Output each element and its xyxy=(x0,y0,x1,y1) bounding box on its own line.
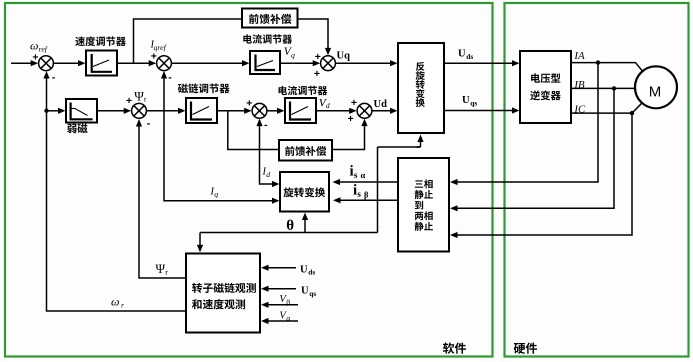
label Iqref xyxy=(150,40,168,52)
summing junction S1 omega xyxy=(32,52,55,84)
svg-text:qs: qs xyxy=(309,289,316,298)
wire Ud to inverse rotation xyxy=(372,108,398,114)
block current regulator 2 xyxy=(279,86,328,123)
wire phase IA xyxy=(450,60,643,185)
wire Vd to S6 xyxy=(316,108,357,114)
block voltage source inverter xyxy=(520,51,571,123)
wire Uds to inverter xyxy=(444,60,520,66)
svg-text:Ud: Ud xyxy=(374,99,388,110)
label omega_r xyxy=(111,294,125,309)
svg-text:U: U xyxy=(301,286,309,297)
summing junction S6 Ud xyxy=(348,97,372,125)
wire Uqs to inverter xyxy=(444,107,520,113)
block flux and speed observer xyxy=(186,254,260,333)
svg-text:U: U xyxy=(462,95,470,106)
svg-text:+: + xyxy=(126,95,132,107)
svg-text:U: U xyxy=(300,264,308,275)
label V_alpha xyxy=(279,310,290,322)
wire phase IC xyxy=(450,103,642,238)
wire Iq net xyxy=(161,71,280,204)
wire S4 to current regulator 2 xyxy=(267,108,285,114)
label Iq xyxy=(210,186,219,198)
block flux regulator xyxy=(178,83,230,123)
wire omega_ref input xyxy=(11,60,38,66)
label Uqs stub xyxy=(301,286,316,298)
wire Id net xyxy=(256,119,279,188)
svg-text:Ψ: Ψ xyxy=(156,261,166,276)
svg-text:qs: qs xyxy=(470,98,477,107)
svg-text:+: + xyxy=(351,97,357,109)
svg-text:r: r xyxy=(165,268,168,277)
svg-text:α: α xyxy=(361,170,366,180)
software region frame xyxy=(5,3,493,357)
svg-text:α: α xyxy=(286,314,290,323)
svg-text:β: β xyxy=(286,297,290,306)
label psi_r at observer xyxy=(156,261,169,277)
svg-text:Uq: Uq xyxy=(337,51,351,62)
svg-text:θ: θ xyxy=(286,218,294,234)
label Vq xyxy=(284,46,295,59)
svg-text:+: + xyxy=(246,97,252,109)
svg-text:ds: ds xyxy=(466,52,473,61)
svg-text:+: + xyxy=(151,50,157,62)
wire Uq to inverse rotation xyxy=(335,60,397,66)
wire speed tap to field weakening xyxy=(44,108,65,114)
wire feedforward 2 to S6 xyxy=(332,119,368,150)
block feedforward 1 xyxy=(242,9,298,28)
wire i_s_beta xyxy=(333,197,398,203)
svg-text:Ψ: Ψ xyxy=(134,88,144,103)
svg-text:+: + xyxy=(314,68,320,80)
wire feedforward 1 to S5 xyxy=(298,19,331,55)
svg-text:s: s xyxy=(357,189,361,199)
wire omega_r feedback xyxy=(43,71,186,311)
wire i_s_alpha xyxy=(333,179,399,185)
wire S3 to flux regulator xyxy=(146,108,185,114)
wire S1 to speed regulator xyxy=(53,60,85,66)
block field weakening xyxy=(66,99,97,133)
wire phase IB xyxy=(450,86,635,211)
label hardware xyxy=(514,343,537,354)
svg-text:ω: ω xyxy=(111,294,119,308)
block three-phase to two-phase xyxy=(398,158,449,252)
block speed regulator xyxy=(75,36,126,75)
label i_s_alpha xyxy=(350,164,366,181)
block rotation transform xyxy=(280,172,329,212)
svg-text:IA: IA xyxy=(573,50,585,62)
svg-text:IB: IB xyxy=(573,79,585,91)
motor M xyxy=(635,66,677,108)
svg-text:-: - xyxy=(147,118,151,130)
wire V_beta stub to observer xyxy=(261,302,298,308)
summing junction S2 Iq xyxy=(151,50,173,83)
wire branch to feedforward 1 xyxy=(134,19,243,63)
summing junction S4 Id xyxy=(246,97,268,130)
label Uqs xyxy=(462,95,477,107)
wire psi_r feedback xyxy=(136,119,186,278)
label Uds stub xyxy=(300,264,315,276)
wire field weakening to S3 xyxy=(97,108,131,114)
svg-text:ω: ω xyxy=(30,38,38,52)
svg-text:r: r xyxy=(144,95,147,104)
wire Vq to S5 xyxy=(280,60,320,66)
label Vd xyxy=(319,97,330,110)
label i_s_beta xyxy=(353,183,369,200)
wire S2 to current regulator 1 xyxy=(171,60,249,66)
block inverse rotation transform xyxy=(398,43,444,133)
svg-text:ds: ds xyxy=(308,268,315,277)
svg-text:s: s xyxy=(354,170,358,180)
summing junction S3 flux xyxy=(126,95,151,130)
svg-text:-: - xyxy=(264,119,268,131)
wire Uqs stub to observer xyxy=(261,286,296,292)
label V_beta xyxy=(279,294,290,306)
wire speed regulator to S2 xyxy=(117,60,156,66)
svg-text:IC: IC xyxy=(573,104,586,116)
label software xyxy=(443,343,466,354)
wire flux regulator to S4 xyxy=(217,108,252,114)
label psi_r at S3 xyxy=(134,88,147,103)
label omega_ref xyxy=(30,38,49,53)
svg-text:U: U xyxy=(458,48,466,59)
summing junction S5 Uq xyxy=(314,51,336,80)
svg-text:M: M xyxy=(649,84,662,101)
svg-text:qref: qref xyxy=(154,43,168,52)
wire theta net xyxy=(197,135,424,253)
svg-text:+: + xyxy=(348,113,354,125)
svg-text:d: d xyxy=(326,101,330,110)
svg-text:-: - xyxy=(168,71,172,83)
svg-text:+: + xyxy=(315,51,321,63)
svg-text:q: q xyxy=(291,51,295,60)
block feedforward 2 xyxy=(279,140,332,161)
wire V_alpha stub to observer xyxy=(261,318,298,324)
label Uds xyxy=(458,48,473,60)
wire Uds stub to observer xyxy=(261,265,296,271)
wire branch to feedforward 2 xyxy=(228,111,279,150)
svg-text:β: β xyxy=(364,189,369,199)
svg-text:d: d xyxy=(266,170,270,179)
block current regulator 1 xyxy=(243,34,292,74)
label Id xyxy=(262,166,271,179)
hardware region frame xyxy=(505,3,689,357)
svg-text:-: - xyxy=(52,71,56,83)
svg-text:q: q xyxy=(214,190,218,199)
